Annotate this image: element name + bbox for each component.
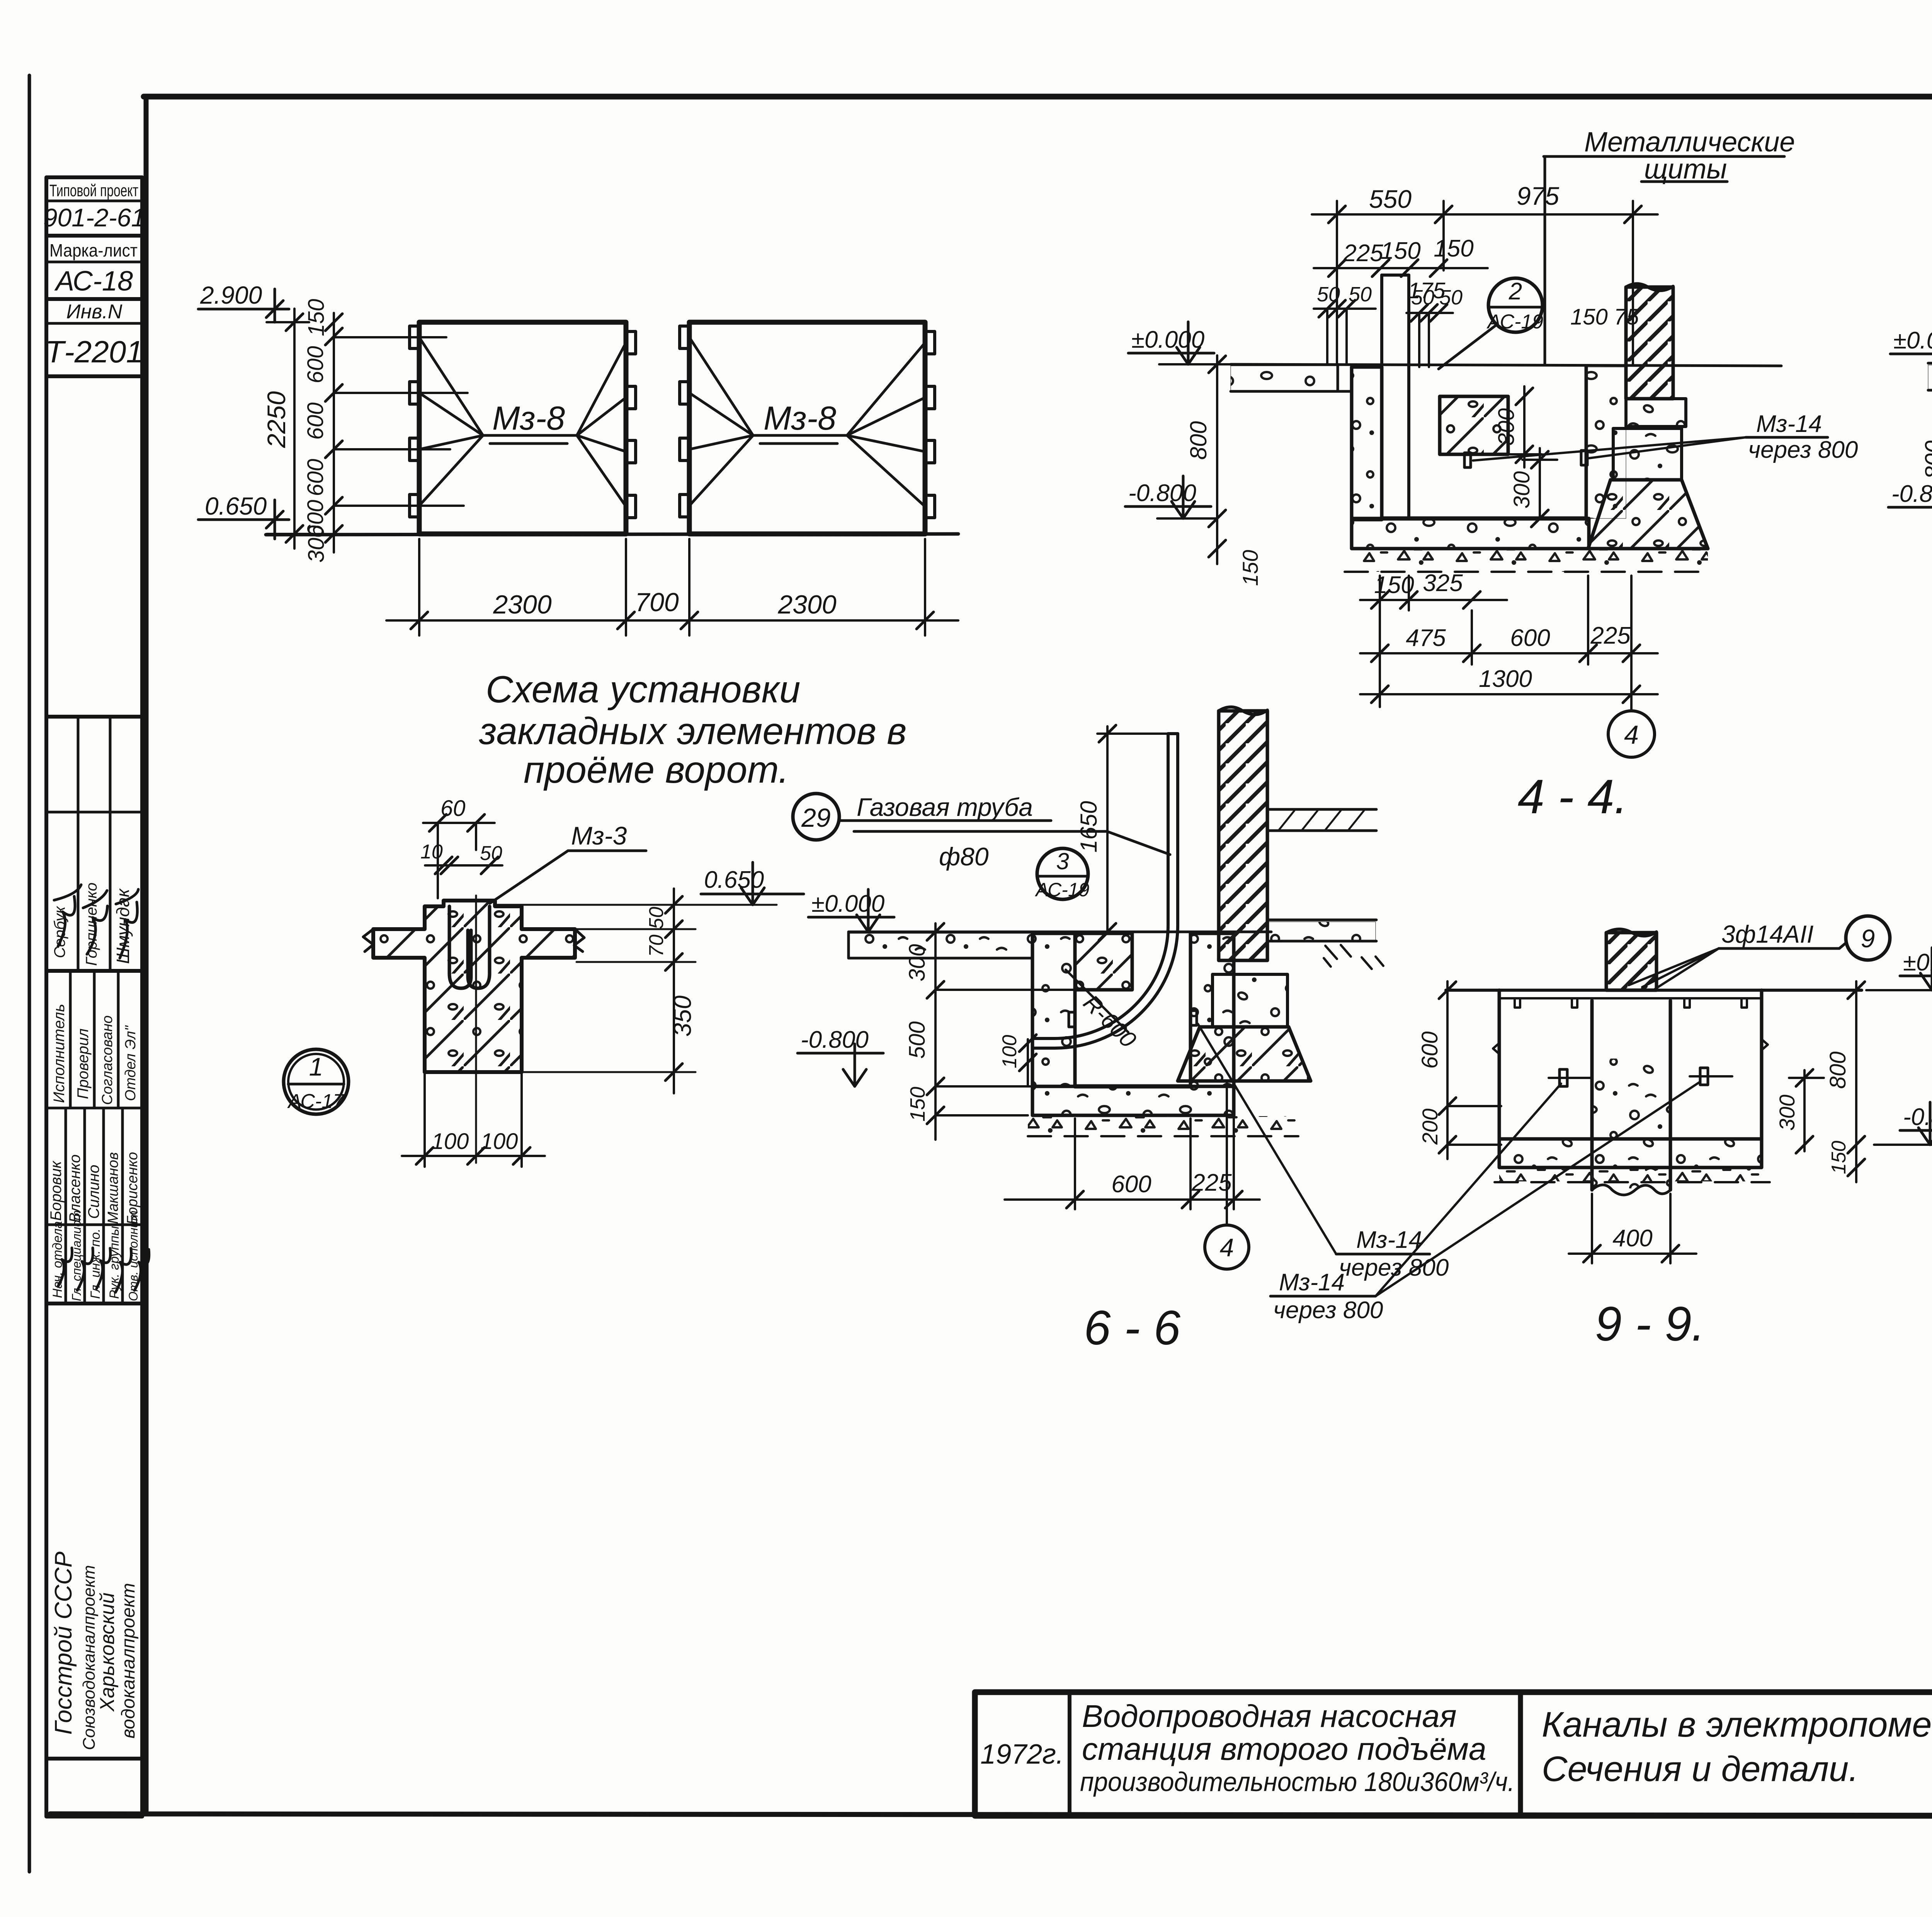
svg-text:Водопроводная насосная: Водопроводная насосная: [1082, 1699, 1457, 1734]
centre axis: [475, 896, 477, 1163]
left floor slab: [1928, 364, 1932, 390]
svg-text:70: 70: [645, 935, 668, 957]
left floor slab: [849, 932, 1032, 958]
floor line: [1231, 364, 1781, 366]
svg-text:Мз-8: Мз-8: [764, 400, 836, 437]
svg-text:Согласовано: Согласовано: [99, 1015, 116, 1105]
svg-text:600: 600: [1510, 625, 1550, 651]
elevation -0.800 left: [1888, 476, 1932, 518]
callout 2/АС-19: [1439, 278, 1543, 369]
svg-text:ф80: ф80: [939, 842, 989, 871]
M3-14 label left: [1270, 1082, 1700, 1324]
elevation 2.900: [198, 289, 289, 322]
dim 225/150/150: [1314, 260, 1488, 277]
svg-text:4: 4: [1220, 1233, 1234, 1262]
svg-text:Проверил: Проверил: [75, 1028, 92, 1099]
svg-text:150: 150: [906, 1087, 929, 1122]
svg-text:9 - 9.: 9 - 9.: [1595, 1297, 1705, 1351]
elevation ±0.000 left: [1128, 322, 1231, 364]
brick wall column: [1626, 284, 1673, 399]
svg-text:Газовая труба: Газовая труба: [857, 793, 1033, 821]
channel bottom slab: [1032, 1086, 1234, 1115]
svg-text:Горпиненко: Горпиненко: [83, 882, 100, 966]
svg-text:901-2-61: 901-2-61: [43, 203, 145, 232]
dim 100 pipe end: [1019, 1035, 1036, 1086]
svg-text:2250: 2250: [262, 391, 291, 448]
svg-text:1: 1: [309, 1052, 323, 1081]
elevation 0.650: [497, 862, 804, 905]
middle pier below: [1592, 1001, 1670, 1195]
rubble under slab: [1345, 549, 1710, 572]
bottom dim 100/100: [402, 1074, 545, 1167]
svg-text:225: 225: [1343, 240, 1383, 267]
svg-text:Боровик: Боровик: [48, 1160, 65, 1221]
svg-text:щиты: щиты: [1644, 154, 1727, 185]
right dim 50/70/350: [524, 889, 696, 1093]
svg-text:через 800: через 800: [1273, 1297, 1383, 1324]
dim 10/50: [425, 857, 502, 874]
fan braces gate1: [419, 337, 626, 506]
STAMP-COLUMN: [43, 177, 149, 1817]
elevation ±0.000 left: [1890, 321, 1932, 364]
channel side walls: [1499, 990, 1762, 1139]
svg-text:475: 475: [1406, 625, 1446, 651]
svg-text:800: 800: [1825, 1052, 1850, 1089]
svg-text:300: 300: [1494, 408, 1519, 446]
svg-text:±0.000: ±0.000: [1131, 326, 1204, 353]
left floor slab: [1231, 364, 1338, 391]
Мз-3 label: [490, 821, 646, 903]
svg-text:Мз-14: Мз-14: [1279, 1269, 1345, 1296]
bottom dim 475/600/225: [1360, 576, 1658, 707]
svg-text:3ф14АII: 3ф14АII: [1721, 920, 1814, 948]
svg-text:150: 150: [1374, 572, 1414, 598]
dim 400: [1569, 1194, 1696, 1263]
footing trapezoid: [1178, 1027, 1311, 1081]
M3-14 label: [1473, 411, 1858, 463]
svg-text:3: 3: [1056, 848, 1069, 874]
svg-text:50: 50: [1439, 286, 1463, 309]
anchor plates: [1549, 1068, 1732, 1086]
svg-text:29: 29: [801, 803, 831, 833]
svg-text:50: 50: [1349, 283, 1372, 306]
svg-text:±0.000: ±0.000: [1893, 327, 1932, 354]
svg-text:550: 550: [1369, 185, 1412, 213]
svg-text:Макшанов: Макшанов: [105, 1152, 121, 1224]
hatched insert block: [1440, 396, 1508, 454]
svg-text:9: 9: [1861, 924, 1875, 953]
svg-text:100: 100: [481, 1129, 518, 1154]
svg-text:4: 4: [1624, 720, 1639, 749]
svg-text:200: 200: [1418, 1108, 1442, 1145]
svg-text:Типовой проект: Типовой проект: [49, 181, 138, 200]
svg-text:1650: 1650: [1076, 801, 1102, 852]
svg-text:600: 600: [1111, 1171, 1151, 1198]
svg-text:АС-19: АС-19: [1035, 879, 1090, 901]
svg-text:Силино: Силино: [85, 1165, 102, 1219]
svg-text:Сечения и детали.: Сечения и детали.: [1542, 1749, 1859, 1789]
svg-text:водоканалпроект: водоканалпроект: [118, 1583, 139, 1739]
elevation 0.650: [198, 500, 289, 539]
metal shield in channel: [1382, 275, 1409, 518]
frame top: [144, 94, 1932, 100]
SECTION 9-9: [1270, 916, 1932, 1351]
floor slab arm break ends: [363, 929, 584, 952]
floor slab top: [1446, 990, 1862, 998]
R-600 note: [1066, 970, 1141, 1053]
svg-text:50: 50: [480, 842, 502, 865]
svg-text:300: 300: [905, 944, 930, 982]
left channel wall: [1032, 933, 1075, 1086]
elevation -0.800 left: [1125, 476, 1217, 518]
scheme caption: [479, 668, 906, 791]
channel interior right wall: [1586, 367, 1626, 518]
svg-text:150: 150: [304, 299, 329, 336]
pedestal upper block with channel: [373, 901, 575, 1072]
svg-text:-0.800: -0.800: [1891, 481, 1932, 507]
leader lines from chain to plates: [334, 337, 468, 506]
left dim chain 300/500/150: [927, 923, 1078, 1140]
svg-text:1972г.: 1972г.: [980, 1739, 1064, 1770]
signature scribbles: [54, 885, 149, 1292]
rotated stamp texts: [48, 882, 141, 1750]
studs: [1069, 1012, 1075, 1027]
svg-text:100: 100: [998, 1035, 1021, 1069]
svg-text:50: 50: [1411, 286, 1434, 309]
svg-text:Госстрой СССР: Госстрой СССР: [50, 1552, 77, 1735]
svg-text:300: 300: [1775, 1094, 1799, 1130]
frame bottom: [50, 1814, 1932, 1816]
dim 300 inner: [1508, 386, 1542, 467]
svg-text:0.650: 0.650: [205, 492, 267, 520]
dim 1650: [1097, 725, 1167, 940]
svg-text:Металлические: Металлические: [1584, 127, 1795, 158]
svg-text:2300: 2300: [777, 590, 836, 619]
M3-14 label: [1198, 1024, 1449, 1281]
dim 60 top: [423, 814, 495, 898]
left dim 600/200: [1439, 981, 1501, 1159]
svg-text:закладных элементов в: закладных элементов в: [479, 710, 906, 752]
svg-text:Мз-14: Мз-14: [1356, 1227, 1422, 1253]
bottom slab: [1352, 518, 1589, 549]
svg-text:300: 300: [304, 525, 329, 563]
ground line: [849, 931, 1271, 933]
svg-text:800: 800: [1920, 440, 1932, 479]
channel right wall: [1190, 933, 1234, 1086]
svg-text:станция второго подъёма: станция второго подъёма: [1082, 1732, 1486, 1767]
callout circle 1/АС-17: [284, 1049, 349, 1114]
svg-text:Исполнитель: Исполнитель: [51, 1004, 68, 1103]
wall footing band: [1626, 399, 1686, 427]
svg-text:150 75: 150 75: [1570, 304, 1639, 330]
svg-text:Мз-8: Мз-8: [492, 400, 565, 437]
footing block: [1613, 428, 1682, 480]
SECTION 4-4: [1125, 127, 1858, 824]
dim 2250 vertical: [267, 309, 313, 549]
svg-text:300: 300: [1509, 471, 1534, 509]
svg-text:500: 500: [905, 1021, 930, 1059]
DETAIL 1/АС-17 pedestal: [284, 796, 804, 1167]
svg-text:Каналы в электропомещении.: Каналы в электропомещении.: [1542, 1705, 1932, 1744]
gate panel 2: [689, 322, 925, 534]
footing trapezoid: [1588, 480, 1708, 549]
hatched pier above floor: [1606, 929, 1656, 990]
SECTION 5-5: [1888, 182, 1932, 814]
svg-text:325: 325: [1423, 570, 1463, 597]
elevation ±0.000: [1866, 948, 1932, 990]
svg-text:производительностью 180и360м³/: производительностью 180и360м³/ч.: [1080, 1767, 1515, 1797]
svg-text:975: 975: [1517, 182, 1559, 210]
right dim 800/150: [1848, 981, 1865, 1182]
svg-text:Мз-3: Мз-3: [571, 821, 627, 850]
floor line: [1928, 363, 1932, 364]
svg-text:2.900: 2.900: [200, 281, 262, 309]
svg-text:Союзводоканалпроект: Союзводоканалпроект: [80, 1565, 99, 1750]
elevation -0.800: [1874, 1102, 1932, 1145]
studs M3-14: [1464, 453, 1471, 467]
right upper slab 0.650: [1269, 809, 1376, 831]
svg-text:6 - 6: 6 - 6: [1084, 1301, 1181, 1355]
svg-text:600: 600: [1417, 1032, 1442, 1069]
dim 300: [1789, 1069, 1824, 1153]
frame left: [144, 97, 149, 1814]
svg-text:Схема установки: Схема установки: [486, 668, 800, 710]
3Ф14АII label: [1629, 920, 1846, 989]
sheet outer border left: [28, 75, 31, 1872]
bottom dim 600/225: [1005, 1086, 1260, 1209]
gate panel 1: [419, 322, 626, 534]
svg-text:1300: 1300: [1479, 666, 1532, 692]
signature table verticals: [77, 717, 80, 971]
svg-text:150: 150: [1434, 235, 1473, 262]
svg-text:600: 600: [303, 346, 328, 384]
embed plates gate1 left: [410, 326, 935, 518]
svg-text:50: 50: [645, 907, 668, 929]
svg-text:АС-19: АС-19: [1486, 311, 1543, 333]
fan braces gate2: [689, 337, 925, 506]
dim chain 150/600x3/600/300: [325, 313, 342, 552]
SCHEME: закладные элементы в проёме ворот: [198, 281, 958, 791]
svg-text:600: 600: [303, 403, 328, 440]
callout 29 gas pipe: [793, 793, 1170, 871]
svg-text:-0.800: -0.800: [1903, 1104, 1932, 1130]
svg-text:АС-18: АС-18: [54, 266, 133, 297]
dim 50 50 pairs: [1314, 300, 1453, 367]
svg-text:АС-17: АС-17: [287, 1090, 345, 1113]
svg-text:60: 60: [440, 796, 466, 821]
svg-text:0.650: 0.650: [704, 867, 764, 893]
axis circle 4: [1205, 1082, 1249, 1269]
svg-text:Мз-14: Мз-14: [1756, 411, 1822, 437]
axis circle 9: [1846, 916, 1890, 960]
svg-text:Харьковский: Харьковский: [96, 1592, 119, 1712]
svg-text:Марка-лист: Марка-лист: [49, 240, 138, 260]
wall break marks: [1493, 1039, 1768, 1054]
svg-text:150: 150: [1828, 1141, 1850, 1174]
bottom dim 2300/700/2300: [386, 539, 958, 636]
svg-text:±0.000: ±0.000: [811, 891, 884, 917]
ground line: [266, 534, 958, 535]
left channel wall: [1338, 367, 1382, 520]
axis circle 4: [1608, 694, 1655, 757]
bottom slab: [1495, 1139, 1770, 1182]
svg-text:800: 800: [1185, 421, 1211, 460]
svg-text:2300: 2300: [493, 590, 551, 619]
elevation -0.800: [798, 1026, 883, 1086]
SECTION 6-6: [793, 707, 1449, 1355]
svg-text:150: 150: [1238, 550, 1262, 586]
TITLE-BLOCK: [975, 1692, 1932, 1816]
svg-text:-0.800: -0.800: [1128, 480, 1196, 506]
svg-text:225: 225: [1590, 622, 1631, 649]
svg-text:700: 700: [635, 588, 679, 617]
wall footing block: [1213, 974, 1287, 1027]
svg-text:Отдел Эл": Отдел Эл": [122, 1025, 139, 1101]
svg-text:через 800: через 800: [1748, 437, 1858, 463]
gas pipe: [1032, 734, 1178, 1048]
bottom dim 150/325: [1360, 576, 1507, 707]
svg-text:Инв.N: Инв.N: [66, 301, 122, 323]
svg-text:50: 50: [1317, 283, 1340, 306]
hatched block: [1075, 933, 1132, 990]
rubble under slab: [1028, 1116, 1298, 1136]
callout 3/АС-19: [1035, 848, 1090, 901]
svg-text:400: 400: [1612, 1225, 1652, 1252]
brick wall: [1219, 707, 1267, 960]
dim 300 lower: [1522, 448, 1557, 527]
elevation ±0.000: [808, 889, 894, 932]
svg-text:проёме ворот.: проёме ворот.: [524, 748, 789, 791]
bottom dim 1300: [1360, 686, 1658, 703]
svg-text:-0.800: -0.800: [801, 1026, 869, 1053]
svg-text:Отв. исполнит: Отв. исполнит: [126, 1210, 140, 1301]
dim 550/975: [1312, 201, 1658, 364]
embedded channel profile: [444, 901, 471, 988]
svg-text:350: 350: [668, 995, 696, 1037]
svg-text:±0.000: ±0.000: [1903, 949, 1932, 976]
label Металлические щиты: [1544, 127, 1795, 364]
svg-text:2: 2: [1509, 278, 1522, 305]
svg-text:Т-2201: Т-2201: [45, 335, 143, 369]
svg-text:100: 100: [432, 1129, 469, 1154]
svg-text:600: 600: [303, 459, 328, 496]
svg-text:150: 150: [1381, 238, 1420, 264]
right floor -0.150: [1267, 920, 1383, 969]
svg-text:4 - 4.: 4 - 4.: [1518, 770, 1628, 824]
anchor hooks under floor: [1515, 998, 1747, 1008]
dim 800 left: [1209, 355, 1226, 564]
svg-text:10: 10: [420, 841, 443, 863]
